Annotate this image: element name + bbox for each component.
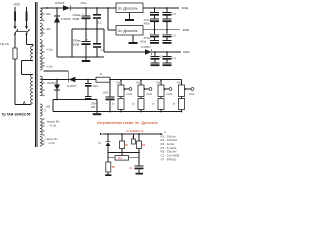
- node W1 x88: [87, 79, 89, 81]
- ground symbol choke2: [132, 35, 134, 42]
- resistor R5 vertical (sub): [107, 158, 109, 162]
- fuse FU1: [13, 48, 17, 59]
- wire VD5 to lower return: [56, 90, 58, 99]
- capacitor C1 (sub): [135, 165, 144, 167]
- resistor R4b lower: [181, 97, 183, 99]
- transistor VT gate element (sub): [133, 134, 135, 139]
- wire heater loop top: [44, 70, 69, 72]
- wire mid ground rail: [72, 28, 104, 30]
- svg-text:Пр 2А: Пр 2А: [1, 42, 9, 46]
- svg-text:D 1N4007 S: D 1N4007 S: [127, 129, 144, 133]
- node sub rail x139: [138, 152, 140, 154]
- svg-text:28в: 28в: [46, 27, 51, 31]
- subckt output arrow: [161, 133, 163, 135]
- wire return drop left x53: [52, 100, 54, 112]
- subckt input arrow: [100, 133, 102, 135]
- wire bias feed row: [104, 51, 145, 53]
- svg-text:240в: 240в: [183, 50, 190, 54]
- diode VD3 1N4007: [145, 49, 152, 55]
- svg-text:См1: См1: [127, 92, 133, 96]
- svg-text:VT - IRF830: VT - IRF830: [161, 157, 177, 161]
- capacitor C6 2.2: [166, 8, 168, 13]
- wire subckt input rail: [103, 133, 161, 135]
- svg-text:2,2: 2,2: [98, 20, 102, 24]
- svg-text:См4: См4: [189, 92, 195, 96]
- resistor R3b lower: [160, 97, 162, 99]
- svg-text:100н: 100н: [93, 84, 99, 88]
- svg-text:~6В: ~6В: [45, 105, 50, 109]
- diode VD1 1N5408: [63, 5, 70, 11]
- potentiometer R3a bias adjust: [160, 80, 162, 85]
- wire rail to R4 row: [107, 153, 109, 158]
- node mid rail x86: [85, 28, 87, 30]
- transformer secondary winding section 6: [40, 104, 42, 116]
- capacitor C13 100n lower: [85, 96, 92, 98]
- wire mid rail to bias row: [103, 29, 105, 52]
- film capacitor C4 2.2 column lower: [96, 29, 98, 43]
- wire subckt lower rail: [108, 152, 139, 154]
- wire return drop x97: [96, 100, 98, 112]
- switch SA1 pole 2 lever: [26, 29, 30, 34]
- resistor R1 (sub): [121, 134, 123, 141]
- switch contact node 1: [14, 33, 16, 35]
- svg-text:2,2: 2,2: [101, 48, 105, 52]
- mains plug pin 2: [26, 7, 28, 28]
- svg-text:28в: 28в: [46, 12, 51, 16]
- wire after VD3: [152, 51, 181, 53]
- potentiometer R4a bias adjust: [179, 85, 185, 97]
- transformer secondary winding section 7: [40, 119, 42, 136]
- node mid rail x97: [96, 28, 98, 30]
- circuit schematic: tube amplifier power supply, 200x182: [0, 0, 200, 182]
- svg-text:2,2: 2,2: [172, 34, 176, 38]
- svg-text:330н: 330н: [81, 1, 88, 5]
- diode VD5 1N4007 vertical: [56, 80, 58, 85]
- svg-text:Исправленная схема Эл. Дроссел: Исправленная схема Эл. Дроссель: [97, 121, 158, 125]
- block U1 electronic choke 1: [116, 3, 143, 13]
- wire fuse to primary bottom: [14, 59, 16, 105]
- node rail pot2: [140, 111, 142, 113]
- wire HV top rail: [42, 7, 116, 9]
- node out2 x154: [154, 29, 156, 31]
- ground symbol sub right: [136, 173, 144, 175]
- node sub x139: [138, 133, 140, 135]
- diode VD2 1N5408 vertical: [54, 15, 60, 17]
- secondary winding taps: [42, 13, 45, 15]
- node out1 x154: [154, 7, 156, 9]
- svg-text:1N4007: 1N4007: [67, 84, 77, 88]
- wire bias ground rail: [53, 111, 182, 113]
- svg-text:~6,3в: ~6,3в: [48, 141, 56, 145]
- node rail pot1: [120, 111, 122, 113]
- svg-text:1N4007: 1N4007: [141, 45, 151, 49]
- ground symbol mid: [85, 57, 87, 60]
- transformer secondary winding section 3: [40, 40, 42, 58]
- svg-text:1N4007: 1N4007: [47, 81, 57, 85]
- electrolytic C1 330uF column: [85, 8, 87, 16]
- node return x57: [56, 99, 58, 101]
- svg-text:1,0: 1,0: [160, 55, 164, 59]
- switch contact node 2: [26, 33, 28, 35]
- node out2 x167: [166, 29, 168, 31]
- transformer primary winding lower section: [31, 75, 33, 103]
- svg-text:300в: 300в: [183, 28, 190, 32]
- tap arrow on primary bottom wire: [23, 102, 25, 105]
- svg-text:~6,3в: ~6,3в: [49, 123, 57, 127]
- film capacitor C2 2.2 column: [96, 8, 98, 14]
- node row3 x155: [154, 51, 156, 53]
- wire choke2 output: [143, 29, 180, 31]
- svg-text:250В: 250В: [73, 17, 80, 21]
- mains plug pin 1: [14, 7, 16, 28]
- svg-text:~6,3в: ~6,3в: [46, 48, 54, 52]
- svg-text:1N5408: 1N5408: [55, 1, 65, 5]
- node on rail x47: [46, 7, 48, 9]
- svg-text:~6,3в: ~6,3в: [46, 65, 54, 69]
- transformer secondary winding section 5: [40, 76, 42, 96]
- svg-text:Тр ТАН-104022-50: Тр ТАН-104022-50: [2, 113, 31, 117]
- svg-text:300в: 300в: [182, 6, 189, 10]
- wire bias W1 left: [42, 79, 96, 81]
- ground symbol bias: [96, 112, 98, 114]
- wire choke1 output: [143, 7, 179, 9]
- node rail pot3: [160, 111, 162, 113]
- node ground rail x86: [85, 56, 87, 58]
- wire D2 column: [56, 8, 58, 57]
- transformer secondary winding section 2: [40, 23, 42, 37]
- resistor R2 (sub): [138, 134, 140, 141]
- svg-text:400в: 400в: [140, 40, 147, 44]
- pot R4a wiper and terminal Cm4: [191, 88, 194, 91]
- node on rail x56: [56, 7, 58, 9]
- wire switch2 to primary top: [26, 34, 28, 44]
- electrolytic C3 330uF column lower: [85, 29, 87, 42]
- ground symbol choke1: [129, 13, 131, 20]
- transformer secondary winding section 4: [40, 58, 42, 70]
- svg-text:См3: См3: [167, 92, 173, 96]
- svg-text:350В: 350В: [73, 42, 80, 46]
- svg-text:См2: См2: [147, 92, 153, 96]
- wire W1 right: [110, 79, 182, 81]
- transformer secondary winding section 1: [40, 8, 42, 20]
- block U2 electronic choke 2: [116, 26, 143, 36]
- node on rail x86: [85, 7, 87, 9]
- wire R4 to cap column: [129, 157, 140, 159]
- potentiometer R1a bias adjust: [120, 80, 122, 85]
- pot R2a wiper and terminal Cm2: [149, 88, 152, 91]
- resistor R4 horizontal (sub): [121, 153, 123, 156]
- svg-text:1N5408: 1N5408: [61, 17, 71, 21]
- svg-text:~220: ~220: [13, 3, 20, 7]
- node W1 x110: [109, 79, 111, 81]
- wire switch1 to fuse: [14, 34, 16, 48]
- wire feed to choke 2: [107, 8, 109, 30]
- node sub x122: [121, 133, 123, 135]
- switch SA1 pole 1 lever: [14, 29, 18, 34]
- capacitor C10 1.0: [166, 52, 168, 57]
- node sub rail x122: [121, 152, 123, 154]
- svg-text:100н: 100н: [91, 101, 97, 105]
- svg-text:Эл. Дроссель: Эл. Дроссель: [118, 6, 138, 10]
- node out1 x167: [166, 7, 168, 9]
- capacitor C9 100uF: [154, 52, 156, 57]
- transformer secondary winding section 8: [40, 137, 42, 147]
- capacitor C12 100n upper: [87, 80, 89, 84]
- node rail pot4: [181, 111, 183, 113]
- ground symbol sub left: [105, 174, 111, 176]
- node row3 x167: [166, 51, 168, 53]
- pot R1a wiper and terminal Cm1: [129, 88, 132, 91]
- node sub x108: [107, 133, 109, 135]
- svg-text:1000: 1000: [103, 91, 109, 95]
- node W1 x57: [56, 79, 58, 81]
- transformer T1 core: [34, 2, 36, 147]
- resistor R2b lower: [140, 97, 142, 99]
- resistor R1b lower: [120, 97, 122, 99]
- node gnd rail x110: [109, 111, 111, 113]
- capacitor C7 470uF x2 series: [154, 30, 156, 35]
- wire left ground drop x72: [71, 29, 73, 57]
- wire lower return horizontal: [53, 99, 97, 101]
- diode VD4 1N4007 pointing left: [67, 77, 69, 83]
- node on rail x108: [107, 7, 109, 9]
- capacitor C8 2.2: [166, 30, 168, 35]
- capacitor C5 470uF x2 series: [154, 8, 156, 13]
- primary winding series jog wire: [22, 60, 34, 62]
- switch SA1 mechanical link: [16, 31, 29, 33]
- resistor R0 2k: [96, 77, 110, 82]
- svg-text:400в: 400в: [144, 22, 151, 26]
- wire bottom ground rail: [57, 56, 104, 58]
- svg-text:1,0: 1,0: [172, 56, 176, 60]
- capacitor C11 1000uF: [109, 80, 111, 98]
- svg-text:16В: 16В: [91, 105, 96, 109]
- potentiometer R2a bias adjust: [140, 80, 142, 85]
- node on rail x97: [96, 7, 98, 9]
- svg-text:2,2: 2,2: [172, 12, 176, 16]
- svg-text:Эл. Дроссель: Эл. Дроссель: [118, 29, 138, 33]
- transformer primary winding upper section: [31, 46, 33, 60]
- zener VD6 (sub): [107, 134, 109, 142]
- pot R3a wiper and terminal Cm3: [169, 88, 172, 91]
